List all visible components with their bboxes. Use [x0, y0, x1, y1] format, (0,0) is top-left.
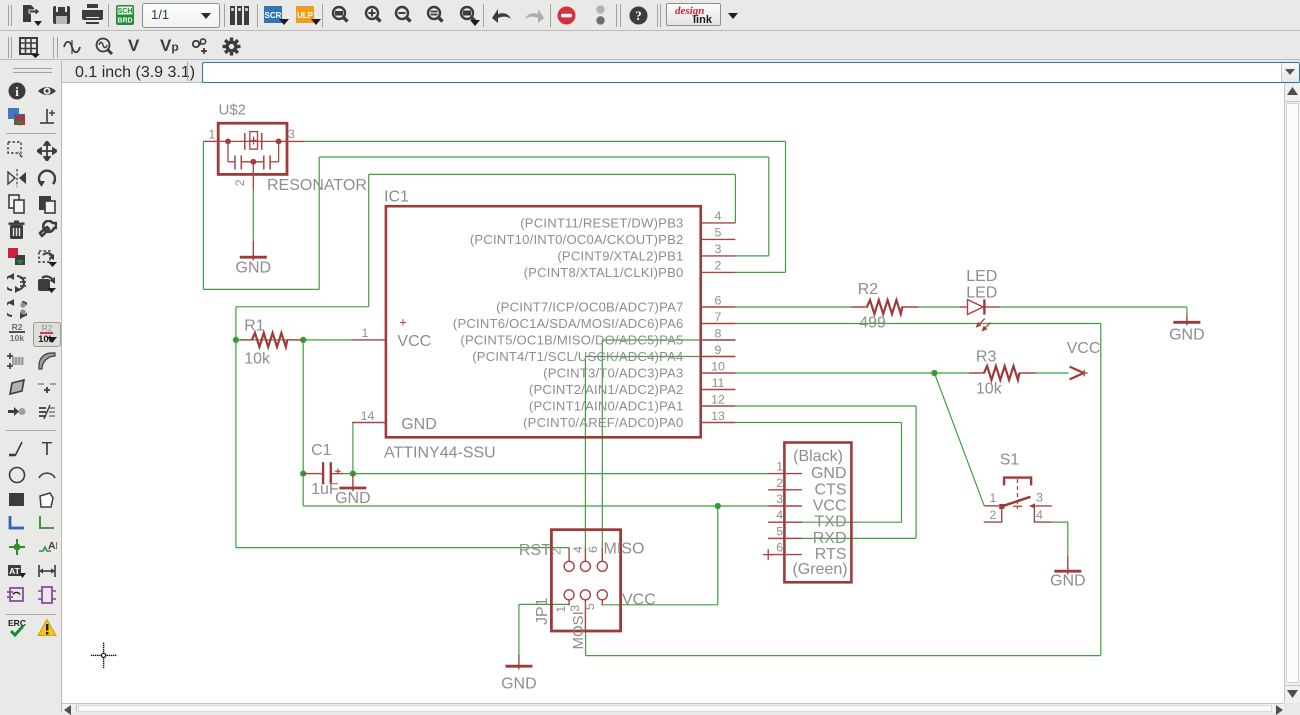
- svg-text:(PCINT10/INT0/OC0A/CKOUT)PB2: (PCINT10/INT0/OC0A/CKOUT)PB2: [470, 232, 684, 247]
- pin 1 GND of connector: [768, 460, 846, 483]
- pin 8 PA5 of IC1: [460, 326, 735, 347]
- pin 2 CTS of connector: [768, 476, 846, 499]
- op-amp IC1 ATTINY44-SSU body: [384, 189, 701, 462]
- power VCC symbol: [1067, 340, 1101, 379]
- node junction: [300, 471, 306, 477]
- svg-text:3: 3: [1036, 490, 1043, 504]
- resistor R2: [851, 281, 918, 331]
- svg-text:BRD: BRD: [117, 18, 132, 25]
- svg-text:2: 2: [715, 259, 722, 273]
- node junction: [931, 370, 937, 376]
- pin 13 PA0 of IC1: [523, 409, 735, 430]
- svg-text:8: 8: [715, 326, 722, 340]
- node junction: [715, 503, 721, 509]
- svg-text:(PCINT9/XTAL2)PB1: (PCINT9/XTAL2)PB1: [557, 249, 683, 264]
- svg-text:(PCINT2/AIN1/ADC2)PA2: (PCINT2/AIN1/ADC2)PA2: [529, 382, 684, 397]
- svg-text:(PCINT7/ICP/OC0B/ADC7)PA7: (PCINT7/ICP/OC0B/ADC7)PA7: [496, 300, 683, 315]
- svg-text:4: 4: [1036, 508, 1043, 522]
- node junction: [300, 337, 306, 343]
- svg-text:+: +: [399, 315, 407, 330]
- wire TXD net: [735, 423, 901, 523]
- pin 12 PA1 of IC1: [529, 392, 735, 413]
- svg-text:GND: GND: [501, 676, 537, 693]
- wire RESET net: [236, 174, 736, 547]
- svg-text:14: 14: [361, 409, 375, 423]
- ground: [501, 655, 537, 693]
- svg-text:9: 9: [715, 343, 722, 357]
- svg-text:R2: R2: [12, 322, 23, 332]
- svg-text:GND: GND: [1050, 573, 1086, 590]
- svg-text:10k: 10k: [976, 381, 1003, 398]
- svg-text:R3: R3: [976, 349, 997, 366]
- node junction: [350, 471, 356, 477]
- ground: [236, 241, 272, 277]
- svg-text:4: 4: [715, 209, 722, 223]
- svg-text:AT: AT: [9, 566, 21, 576]
- svg-text:C1: C1: [311, 442, 332, 459]
- svg-text:VCC: VCC: [622, 591, 656, 608]
- svg-text:13: 13: [711, 409, 725, 423]
- svg-text:12: 12: [711, 392, 725, 406]
- svg-text:5: 5: [776, 524, 783, 538]
- svg-text:?: ?: [635, 8, 642, 23]
- svg-text:AB: AB: [48, 540, 57, 552]
- svg-text:(PCINT8/XTAL1/CLKI)PB0: (PCINT8/XTAL1/CLKI)PB0: [524, 265, 684, 280]
- pin 6 PA7 of IC1: [496, 293, 735, 314]
- svg-text:RXD: RXD: [813, 530, 847, 547]
- svg-text:1: 1: [362, 326, 369, 340]
- svg-text:T: T: [42, 439, 53, 459]
- wire MISO net: [602, 340, 735, 548]
- svg-text:6: 6: [776, 541, 783, 555]
- node junction: [233, 337, 239, 343]
- svg-text:JP1: JP1: [534, 597, 551, 625]
- svg-text:S1: S1: [1000, 452, 1020, 469]
- connector J1 FTDI (Black/Green): [784, 443, 851, 583]
- svg-text:2: 2: [776, 476, 783, 490]
- wire RXD net: [735, 406, 916, 538]
- svg-text:11: 11: [712, 376, 725, 390]
- pin 7 PA6 of IC1: [453, 310, 735, 331]
- svg-text:(PCINT0/AREF/ADC0)PA0: (PCINT0/AREF/ADC0)PA0: [523, 415, 683, 430]
- svg-text:IC1: IC1: [384, 189, 409, 206]
- svg-text:1: 1: [209, 128, 216, 142]
- pin 14 GND of IC1: [352, 409, 386, 423]
- capacitor C1: [303, 442, 343, 498]
- wire GND net: [343, 423, 768, 474]
- pin 3 VCC of connector: [768, 492, 846, 515]
- pin 5 RXD of connector: [768, 524, 846, 547]
- ground: [335, 474, 371, 507]
- svg-text:TXD: TXD: [815, 514, 847, 531]
- wire SCK net: [585, 357, 735, 548]
- svg-text:R2: R2: [42, 323, 53, 333]
- wire LED net: [735, 307, 1187, 315]
- svg-text:10: 10: [711, 359, 725, 373]
- svg-text:(PCINT4/T1/SCL/USCK/ADC4)PA4: (PCINT4/T1/SCL/USCK/ADC4)PA4: [472, 349, 683, 364]
- svg-text:SCH: SCH: [118, 8, 133, 15]
- switch S1: [984, 452, 1052, 523]
- svg-text:1: 1: [990, 491, 997, 505]
- svg-text:RTS: RTS: [815, 546, 847, 563]
- svg-text:RESONATOR: RESONATOR: [267, 177, 367, 194]
- svg-text:(PCINT1/AIN0/ADC1)PA1: (PCINT1/AIN0/ADC1)PA1: [529, 399, 684, 414]
- svg-text:R2: R2: [858, 281, 879, 298]
- crosshair cursor: [91, 643, 117, 669]
- svg-text:RST: RST: [519, 542, 551, 559]
- pin 9 PA4 of IC1: [472, 343, 735, 364]
- svg-text:MISO: MISO: [604, 541, 645, 558]
- svg-text:2: 2: [233, 179, 247, 186]
- svg-text:3: 3: [715, 242, 722, 256]
- wire: [203, 141, 768, 289]
- svg-text:2: 2: [990, 508, 997, 522]
- svg-text:ATTINY44-SSU: ATTINY44-SSU: [384, 445, 496, 462]
- svg-text:U$2: U$2: [219, 102, 247, 119]
- resistor R3: [969, 349, 1036, 398]
- svg-text:10k: 10k: [244, 351, 271, 368]
- pin 5 PB2 of IC1: [470, 226, 736, 247]
- pin 2 PB0 of IC1: [524, 259, 736, 280]
- svg-text:4: 4: [776, 508, 783, 522]
- svg-text:3: 3: [288, 127, 295, 141]
- svg-text:(PCINT3/T0/ADC3)PA3: (PCINT3/T0/ADC3)PA3: [543, 366, 683, 381]
- svg-text:GND: GND: [236, 260, 272, 277]
- svg-text:R1: R1: [244, 318, 265, 335]
- ground: [1050, 556, 1086, 590]
- svg-text:1: 1: [776, 460, 783, 474]
- svg-text:1: 1: [554, 606, 568, 613]
- resistor R1: [240, 318, 303, 368]
- wire VCC net: [303, 340, 768, 605]
- svg-text:VCC: VCC: [1067, 340, 1101, 357]
- svg-text:(PCINT6/OC1A/SDA/MOSI/ADC6)PA6: (PCINT6/OC1A/SDA/MOSI/ADC6)PA6: [453, 316, 684, 331]
- svg-text:(Green): (Green): [792, 561, 847, 578]
- wire JP1 pin1 to GND: [519, 604, 569, 654]
- pin 4 PB3 of IC1: [520, 209, 735, 230]
- svg-text:2: 2: [550, 548, 564, 555]
- wire resonator pin2 to GND: [252, 190, 254, 241]
- svg-text:(PCINT11/RESET/DW)PB3: (PCINT11/RESET/DW)PB3: [520, 216, 683, 231]
- wire S1 to GND: [1052, 522, 1068, 556]
- pin 10 PA3 of IC1: [543, 359, 735, 380]
- svg-text:5: 5: [715, 226, 722, 240]
- wire PA3 to R3 and S1: [735, 373, 1068, 506]
- svg-text:5: 5: [583, 603, 597, 610]
- svg-text:GND: GND: [335, 490, 371, 507]
- wire: [305, 141, 786, 272]
- ground: [1169, 315, 1205, 344]
- svg-text:GND: GND: [1169, 327, 1205, 344]
- connector JP1 ISP header: [519, 530, 656, 650]
- wire MOSI net: [586, 324, 1101, 656]
- svg-text:VCC: VCC: [813, 498, 847, 515]
- pin 4 TXD of connector: [768, 508, 846, 531]
- svg-text:3: 3: [568, 605, 582, 612]
- pin 11 PA2 of IC1: [529, 376, 735, 397]
- svg-text:6: 6: [715, 293, 722, 307]
- svg-text:(Black): (Black): [793, 448, 843, 465]
- svg-text:10k: 10k: [10, 333, 24, 343]
- svg-text:7: 7: [715, 310, 722, 324]
- svg-text:CTS: CTS: [815, 481, 847, 498]
- svg-text:LED: LED: [966, 284, 997, 301]
- svg-text:4: 4: [571, 546, 585, 553]
- svg-text:VCC: VCC: [397, 333, 431, 350]
- svg-text:LED: LED: [966, 268, 997, 285]
- svg-text:GND: GND: [811, 465, 847, 482]
- pin 3 PB1 of IC1: [557, 242, 735, 263]
- svg-text:i: i: [15, 84, 19, 99]
- svg-text:GND: GND: [401, 416, 437, 433]
- svg-text:499: 499: [859, 315, 886, 332]
- svg-text:6: 6: [586, 546, 600, 553]
- svg-text:3: 3: [776, 492, 783, 506]
- pin 1 VCC of IC1: [352, 326, 386, 340]
- pin 6 RTS of connector: [763, 541, 847, 564]
- svg-text:MOSI: MOSI: [570, 611, 587, 649]
- svg-text:(PCINT5/OC1B/MISO/DO/ADC5)PA5: (PCINT5/OC1B/MISO/DO/ADC5)PA5: [460, 333, 683, 348]
- resonator U$2: [203, 102, 366, 194]
- LED LED1: [959, 268, 1000, 331]
